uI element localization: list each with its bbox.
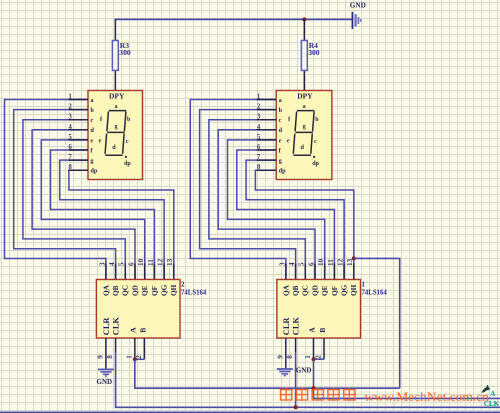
svg-text:8: 8: [106, 355, 114, 359]
svg-text:b: b: [315, 117, 319, 123]
junction at U2 A: [133, 357, 137, 361]
svg-text:QG: QG: [160, 284, 169, 296]
svg-text:d: d: [90, 127, 94, 134]
svg-text:QD: QD: [310, 285, 319, 296]
svg-text:b: b: [90, 107, 94, 114]
svg-text:3: 3: [98, 262, 106, 266]
wire U1 CLK down to bottom rail: [295, 352, 297, 407]
resistor R3 pins: [114, 19, 116, 90]
svg-text:e: e: [287, 139, 290, 145]
svg-text:10: 10: [137, 258, 145, 266]
junction at U1 A: [312, 357, 316, 361]
svg-text:12: 12: [337, 258, 345, 266]
shift register U1 74LS164 body: [277, 280, 361, 339]
svg-text:c: c: [126, 139, 129, 145]
wire DPY1 pin 2 to shift register pin: [14, 110, 116, 280]
watermark chinese characters: [280, 388, 356, 401]
pin 8 CLK stub (U1): [295, 338, 297, 352]
DPY1 segment c: [123, 134, 125, 154]
svg-text:c: c: [279, 117, 282, 124]
DPY2 segment g: [295, 131, 313, 133]
svg-text:A: A: [307, 327, 316, 333]
pin 8 CLK stub (U2): [115, 338, 117, 352]
svg-text:A: A: [129, 327, 138, 333]
svg-text:QA: QA: [281, 284, 290, 296]
svg-text:CLK: CLK: [484, 400, 500, 408]
wire CLK net from U2 pin 8 to bottom rail: [116, 352, 500, 407]
svg-text:74LS164: 74LS164: [362, 290, 388, 297]
svg-text:GND: GND: [296, 367, 312, 375]
resistor R4: [301, 41, 307, 71]
wire U1 QH feedback down right side: [354, 258, 400, 388]
wire DPY1 pin 4 to shift register pin: [32, 130, 135, 280]
svg-text:300: 300: [119, 48, 131, 57]
svg-text:QC: QC: [301, 285, 310, 296]
svg-text:13: 13: [166, 258, 174, 266]
svg-text:11: 11: [327, 259, 335, 266]
DPY1 segment e: [105, 134, 107, 154]
svg-text:4: 4: [288, 262, 296, 266]
junction on top rail at R4: [302, 17, 306, 21]
svg-text:9: 9: [276, 355, 284, 359]
junction on U1 QH vertical: [352, 256, 356, 260]
wire DPY2 pin 5 to shift register pin: [228, 140, 325, 280]
svg-text:c: c: [90, 117, 93, 124]
wire DPY2 pin 2 to shift register pin: [200, 110, 296, 280]
svg-text:A: A: [490, 390, 495, 398]
svg-text:g: g: [303, 124, 306, 130]
svg-text:1: 1: [304, 355, 312, 359]
svg-text:B: B: [138, 328, 147, 333]
wire DPY2 pin 1 to shift register pin: [190, 100, 286, 280]
svg-text:5: 5: [298, 262, 306, 266]
svg-text:4: 4: [108, 262, 116, 266]
svg-text:CLK: CLK: [112, 317, 121, 336]
svg-text:a: a: [303, 104, 306, 110]
svg-text:DPY: DPY: [109, 91, 125, 100]
svg-text:2: 2: [181, 281, 185, 289]
DPY1 segment f: [107, 112, 109, 132]
svg-text:e: e: [279, 137, 282, 144]
junction U1 CLK on bottom rail: [294, 405, 298, 409]
wire U1 serial input down to A net: [313, 359, 315, 398]
svg-text:5: 5: [118, 262, 126, 266]
svg-text:QB: QB: [111, 285, 120, 296]
svg-text:dp: dp: [124, 161, 131, 167]
svg-text:QG: QG: [340, 284, 349, 296]
svg-text:10: 10: [317, 258, 325, 266]
svg-text:3: 3: [278, 262, 286, 266]
wire tying U1 A and B: [314, 358, 325, 360]
svg-text:8: 8: [286, 355, 294, 359]
wire DPY2 pin 4 to shift register pin: [218, 130, 315, 280]
DPY2 segment a: [297, 110, 315, 112]
svg-text:QF: QF: [330, 285, 339, 296]
shift register U2 74LS164 body: [96, 280, 180, 339]
wire DPY1 pin 1 to shift register pin: [5, 100, 106, 280]
resistor R4 pins: [303, 19, 305, 90]
svg-text:1: 1: [125, 355, 133, 359]
DPY2 decimal point: [313, 156, 315, 158]
DPY1 segment a: [109, 110, 127, 112]
svg-text:6: 6: [307, 262, 315, 266]
svg-text:www.MechNet.com.cn: www.MechNet.com.cn: [365, 390, 490, 404]
svg-text:c: c: [314, 139, 317, 145]
wire DPY1 pin 6 to shift register pin: [51, 150, 155, 280]
DPY2 segment f: [295, 112, 297, 132]
svg-text:b: b: [279, 107, 283, 114]
svg-text:GND: GND: [97, 378, 113, 386]
svg-text:9: 9: [96, 355, 104, 359]
pin 1 A stub (U1): [313, 338, 315, 359]
svg-text:1: 1: [362, 281, 366, 289]
svg-text:12: 12: [157, 258, 165, 266]
wire DPY2 pin 8 to shift register pin: [255, 170, 353, 279]
svg-text:QC: QC: [121, 285, 130, 296]
DPY1 segment g: [107, 131, 125, 133]
svg-text:e: e: [90, 137, 93, 144]
DPY1 segment b: [124, 112, 126, 132]
DPY2 segment d: [293, 154, 311, 156]
svg-text:CLR: CLR: [282, 317, 291, 336]
wire DPY2 pin 3 to shift register pin: [209, 120, 305, 280]
svg-text:b: b: [127, 117, 131, 123]
logo bird glyph: [482, 385, 490, 393]
svg-text:GND: GND: [350, 2, 366, 10]
svg-text:a: a: [114, 104, 117, 110]
wire DPY1 pin 3 to shift register pin: [23, 120, 125, 280]
svg-text:QH: QH: [349, 284, 358, 296]
pin 1 A stub (U2): [134, 338, 136, 359]
DPY2 segment c: [311, 134, 313, 154]
svg-text:dp: dp: [90, 168, 98, 175]
wire net A to right edge: [314, 397, 500, 399]
svg-text:QB: QB: [291, 285, 300, 296]
wire DPY1 pin 5 to shift register pin: [41, 140, 144, 280]
7-segment display DPY1 body: [88, 91, 143, 180]
svg-text:QA: QA: [101, 284, 110, 296]
svg-text:dp: dp: [279, 168, 287, 175]
7-segment display DPY2 body: [276, 91, 332, 180]
svg-text:d: d: [279, 127, 283, 134]
pin 2 B stub (U2): [143, 338, 145, 359]
svg-text:e: e: [99, 139, 102, 145]
svg-text:g: g: [114, 124, 117, 130]
pin 9 CLR stub (U2): [105, 338, 107, 369]
svg-text:2: 2: [315, 355, 323, 359]
svg-text:QF: QF: [150, 285, 159, 296]
wire DPY1 pin 7 to shift register pin: [60, 160, 164, 279]
svg-text:QD: QD: [130, 285, 139, 296]
svg-text:CLK: CLK: [292, 317, 301, 336]
svg-text:300: 300: [308, 48, 320, 57]
svg-text:B: B: [318, 328, 327, 333]
junction where U1 serial crosses A net: [312, 386, 316, 390]
svg-text:DPY: DPY: [297, 91, 313, 100]
svg-text:11: 11: [147, 259, 155, 266]
svg-text:CLR: CLR: [102, 317, 111, 336]
wire along bottom edge: [0, 411, 500, 413]
svg-text:QE: QE: [320, 285, 329, 296]
svg-text:6: 6: [127, 262, 135, 266]
pin 2 B stub (U1): [323, 338, 325, 359]
wire VCC top rail: [115, 18, 353, 20]
ground symbol below U1 CLR: [277, 369, 293, 377]
pin 9 CLR stub (U1): [285, 338, 287, 368]
svg-text:d: d: [301, 145, 305, 151]
wire DPY2 pin 6 to shift register pin: [237, 150, 335, 280]
ground GND (top right, rotated): [352, 12, 360, 29]
wire DPY2 pin 7 to shift register pin: [246, 160, 344, 279]
DPY1 segment d: [105, 154, 123, 156]
DPY1 decimal point: [125, 156, 127, 158]
DPY2 segment e: [293, 134, 295, 154]
svg-text:dp: dp: [312, 161, 319, 167]
resistor R3: [112, 41, 118, 71]
svg-text:QE: QE: [140, 285, 149, 296]
svg-text:QH: QH: [169, 284, 178, 296]
wire tying U2 A and B: [135, 358, 145, 360]
wire U2 serial input down and right: [135, 359, 400, 388]
DPY2 segment b: [313, 112, 315, 132]
svg-text:74LS164: 74LS164: [181, 290, 207, 297]
ground symbol below U2 CLR: [98, 369, 114, 377]
wire DPY1 pin 8 to shift register pin: [69, 170, 174, 279]
